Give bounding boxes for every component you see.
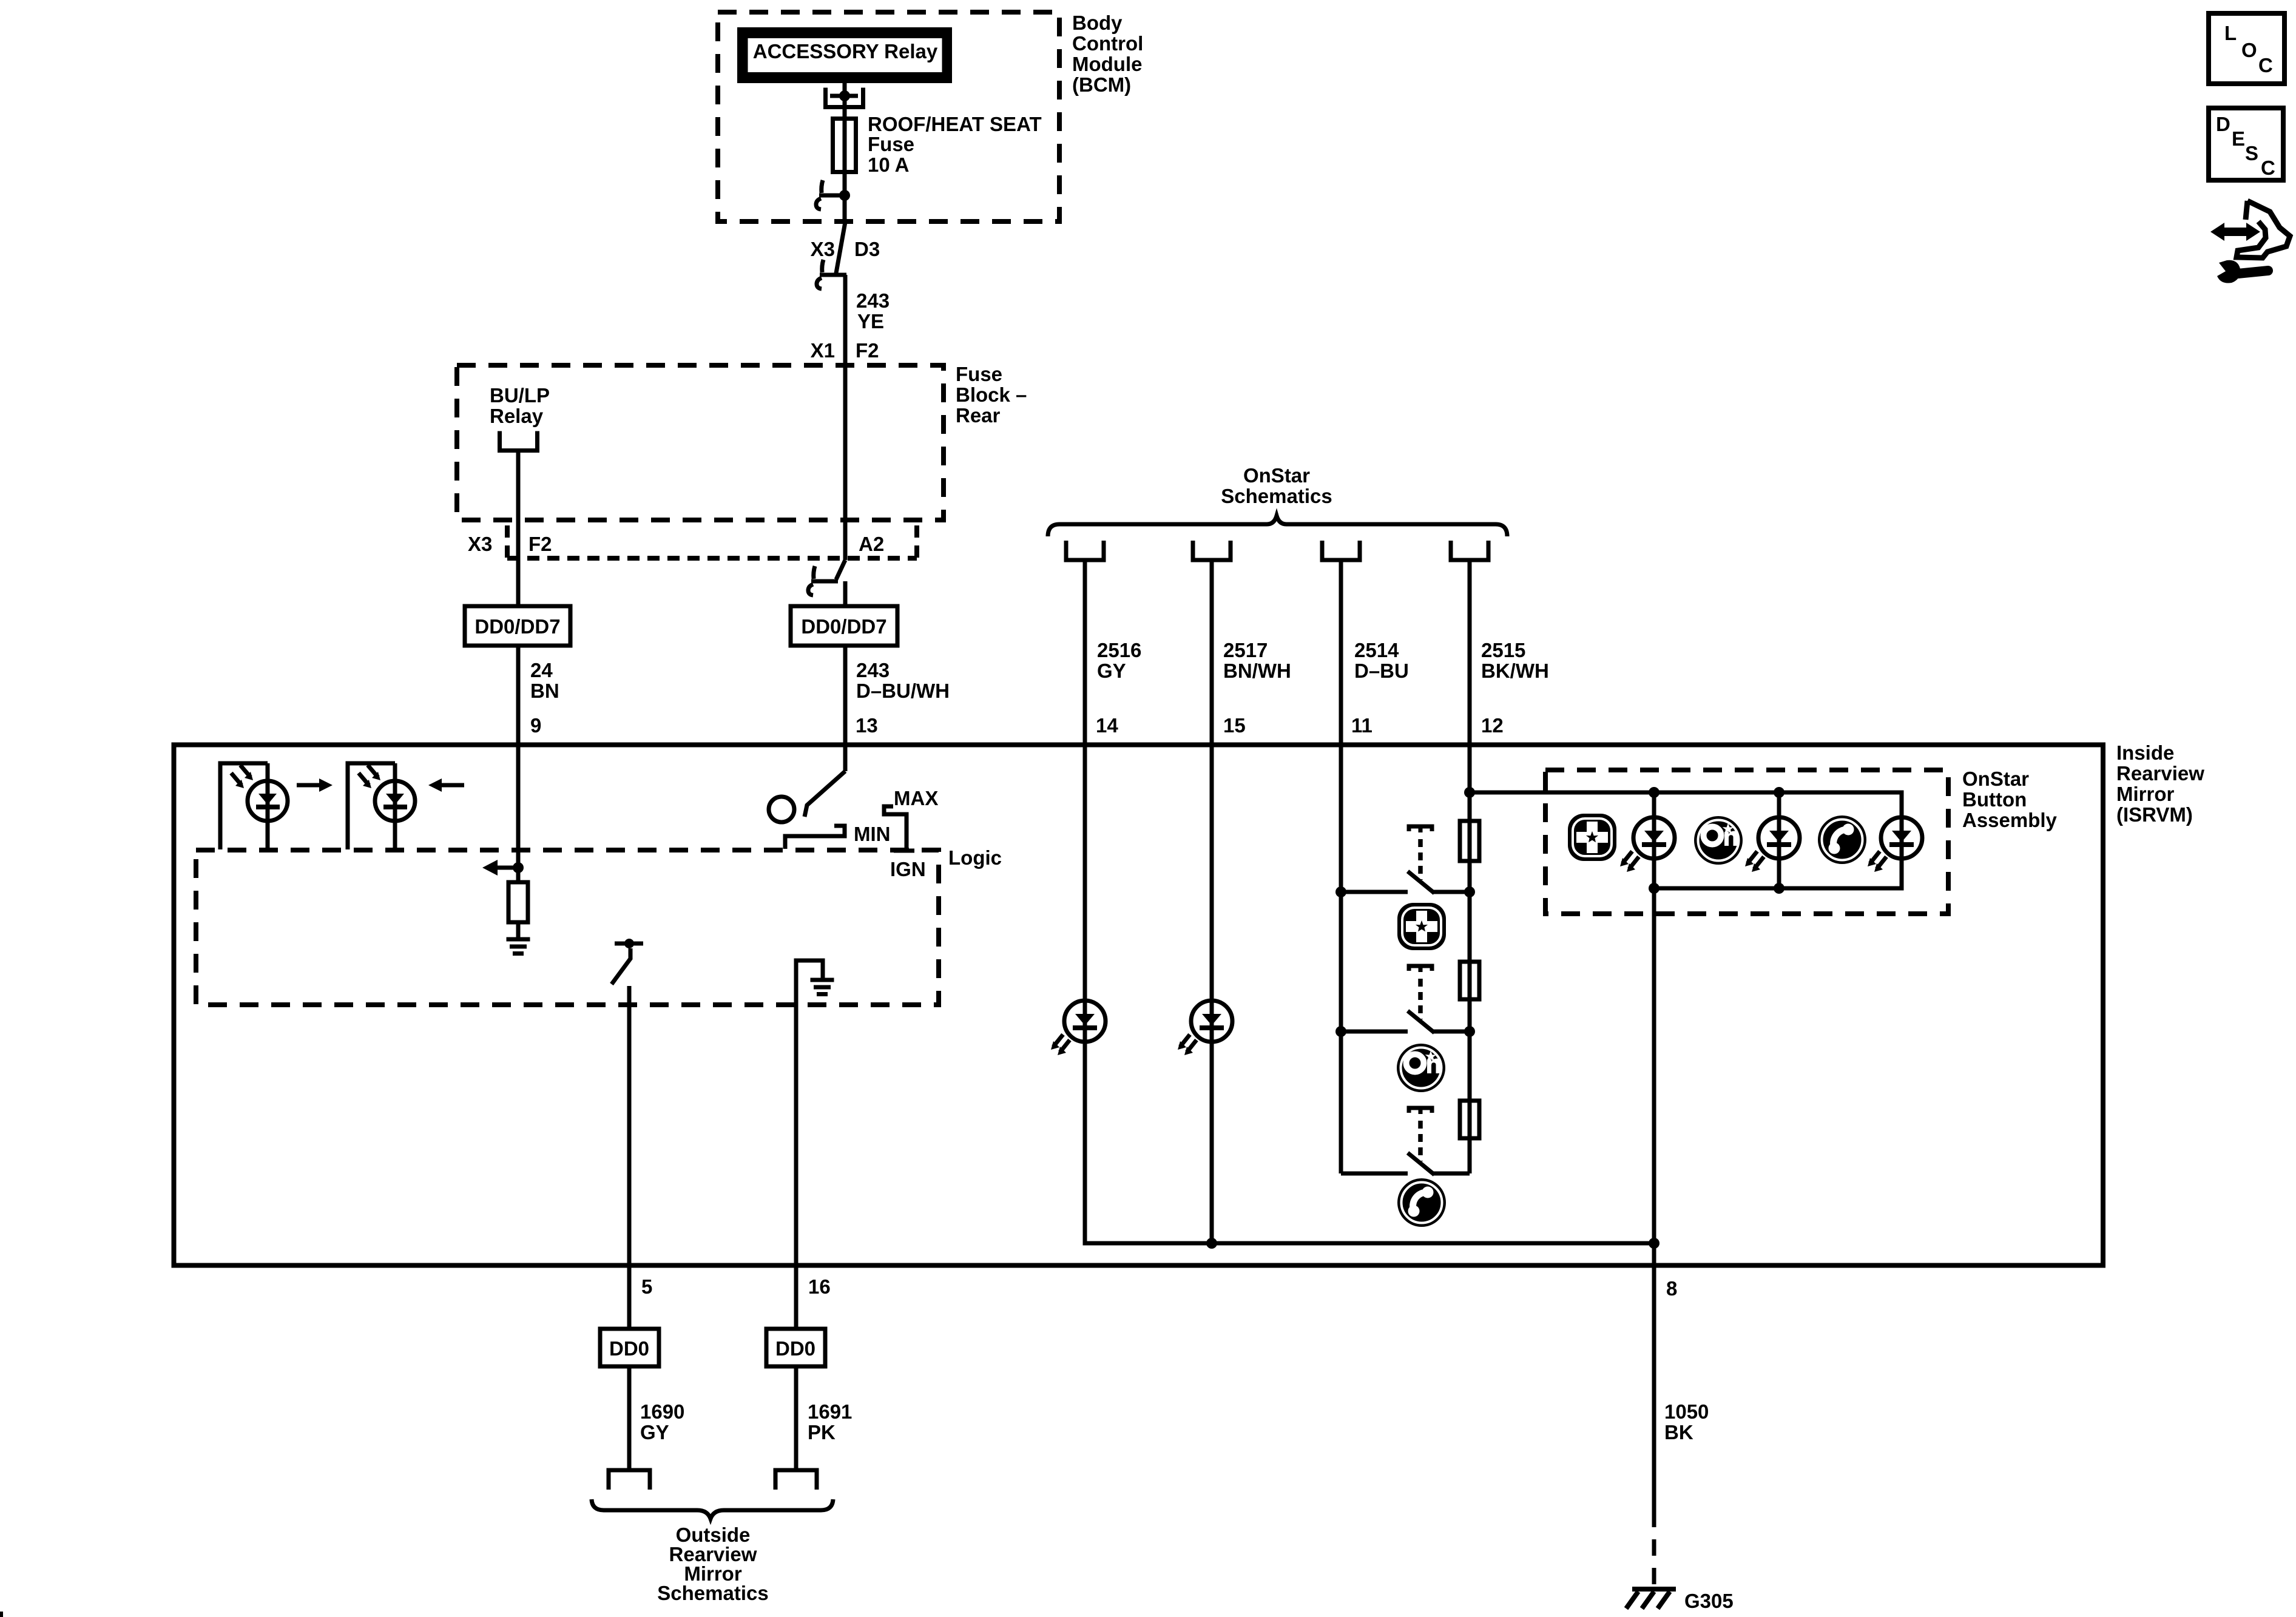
connector DD0/DD7 (left) <box>465 606 570 646</box>
wire 9 into logic <box>516 744 521 882</box>
wire 243 YE <box>843 275 848 560</box>
legend icon: harness outline <box>2237 201 2290 258</box>
photodiode PD1 <box>248 781 288 821</box>
terminal tick <box>830 94 858 98</box>
wire 13 into dimmer <box>843 744 848 771</box>
assembly button: OnStar logo <box>1694 816 1743 865</box>
connector DD0 (right) <box>766 1329 825 1366</box>
wire from BU/LP relay down <box>516 450 521 606</box>
svg-text:16: 16 <box>808 1275 831 1298</box>
speck (scan artifact bottom-left) <box>0 1612 3 1617</box>
svg-text:1050: 1050 <box>1664 1400 1709 1423</box>
assembly LED 2 <box>1745 817 1800 872</box>
OnStar Button Assembly dashed box <box>1545 770 1948 914</box>
brace over OnStar wires <box>1048 516 1507 536</box>
brace under outside mirror wires <box>592 1499 833 1519</box>
svg-text:24: 24 <box>530 659 553 681</box>
resistor on wire 9 <box>508 882 528 922</box>
dimmer wiper lever <box>805 771 845 817</box>
ISRVM label <box>2116 741 2204 826</box>
PD1 light arrows <box>240 765 253 780</box>
wire label 2514 D-BU <box>1354 639 1409 682</box>
linkage bracket 2 <box>1409 966 1432 972</box>
svg-text:Schematics: Schematics <box>1221 485 1332 507</box>
wire 11 vertical <box>1339 744 1343 1173</box>
junction dots row 2 <box>1335 1026 1475 1037</box>
svg-text:Assembly: Assembly <box>1962 809 2058 831</box>
svg-text:OnStar: OnStar <box>1962 768 2029 790</box>
svg-text:Mirror: Mirror <box>2116 783 2175 805</box>
svg-text:243: 243 <box>856 289 890 312</box>
linkage bracket 1 <box>1409 826 1432 832</box>
terminal (outside mirror, right) <box>775 1470 817 1490</box>
wire label 243 YE <box>856 289 890 333</box>
svg-text:Body: Body <box>1072 12 1123 34</box>
svg-text:Module: Module <box>1072 53 1142 75</box>
ground (logic, wire 9) <box>507 939 530 954</box>
Logic dashed box <box>196 850 939 1005</box>
MAX contact <box>884 806 914 851</box>
MIN contact <box>785 826 845 849</box>
svg-text:D: D <box>2216 113 2230 135</box>
wire 24 BN <box>516 646 521 744</box>
junction dot wire 9 <box>513 862 524 873</box>
assembly button: phone <box>1818 815 1866 864</box>
svg-text:Logic: Logic <box>948 846 1002 869</box>
wire 2516 GY <box>1083 560 1087 744</box>
LED2 drop wire <box>1777 792 1781 888</box>
connector hook inside BCM <box>816 180 846 209</box>
svg-text:C: C <box>2261 157 2275 179</box>
button: OnStar logo <box>1397 1044 1445 1092</box>
wire label 2515 BK/WH <box>1481 639 1549 682</box>
relay: ACCESSORY Relay box <box>741 32 948 79</box>
wire to ground <box>516 922 521 938</box>
svg-text:2516: 2516 <box>1097 639 1141 661</box>
left arrow at wire 9 <box>482 860 518 876</box>
svg-text:Rear: Rear <box>956 404 1001 427</box>
svg-text:IGN: IGN <box>890 858 926 880</box>
LED network wiring <box>1470 792 1902 1243</box>
legend icon: wrench <box>2217 260 2268 283</box>
svg-text:A2: A2 <box>859 533 884 555</box>
in-line connector hook <box>808 566 838 595</box>
wire label 1690 GY <box>640 1400 684 1443</box>
in-line connector slant below A2 <box>836 560 845 579</box>
svg-text:X1: X1 <box>811 339 835 362</box>
in-line connector hook <box>817 260 846 289</box>
wire 1050 BK dashed <box>1652 1511 1656 1585</box>
LED1 drop wire <box>1652 792 1656 888</box>
svg-text:PK: PK <box>808 1421 836 1443</box>
svg-text:1690: 1690 <box>640 1400 684 1423</box>
legend icon: double arrow <box>2210 223 2260 241</box>
connector DD0 (left) <box>600 1329 659 1366</box>
svg-text:Control: Control <box>1072 32 1143 55</box>
svg-text:D–BU: D–BU <box>1354 660 1409 682</box>
DESC legend box <box>2209 108 2283 180</box>
assembly button: cross <box>1568 814 1616 861</box>
Body Control Module (BCM) dashed box <box>718 12 1059 221</box>
svg-text:BK/WH: BK/WH <box>1481 660 1549 682</box>
in-line connector slant below X3/D3 <box>836 222 845 273</box>
svg-text:Button: Button <box>1962 788 2027 811</box>
svg-text:GY: GY <box>1097 660 1126 682</box>
svg-text:S: S <box>2245 142 2258 164</box>
wire label 243 D-BU/WH <box>856 659 950 702</box>
photodiode PD2 enclosure <box>348 763 395 849</box>
fold switch dot <box>624 939 634 948</box>
ground G305 <box>1626 1589 1676 1609</box>
svg-text:11: 11 <box>1351 714 1373 737</box>
svg-text:Fuse: Fuse <box>956 363 1002 385</box>
relay output terminal U <box>826 88 863 107</box>
wire label 2516 GY <box>1097 639 1141 682</box>
svg-text:Inside: Inside <box>2116 741 2174 764</box>
svg-text:BN/WH: BN/WH <box>1223 660 1291 682</box>
Fuse Block label <box>956 363 1027 427</box>
wire label 1050 BK <box>1664 1400 1709 1443</box>
svg-text:10 A: 10 A <box>868 154 909 176</box>
wire 5 to DD0 <box>627 1265 632 1329</box>
svg-text:ROOF/HEAT SEAT: ROOF/HEAT SEAT <box>868 113 1042 135</box>
OnStar Schematics label <box>1221 464 1332 507</box>
resistor R3 on wire 12 <box>1460 1101 1479 1138</box>
pin labels X1 / F2 <box>811 339 879 362</box>
dimmer wiper terminal circle <box>769 797 794 822</box>
terminal wire 14 <box>1066 541 1104 560</box>
PD2 light arrows <box>368 765 380 780</box>
svg-text:243: 243 <box>856 659 890 681</box>
assembly LED 1 <box>1620 817 1675 872</box>
terminal wire 15 <box>1193 541 1231 560</box>
svg-text:(ISRVM): (ISRVM) <box>2116 803 2193 826</box>
svg-text:ACCESSORY Relay: ACCESSORY Relay <box>753 40 938 62</box>
button: phone <box>1397 1178 1446 1227</box>
photodiode PD1 wire <box>266 763 270 849</box>
junction dots LED network <box>1649 787 1784 894</box>
svg-text:2515: 2515 <box>1481 639 1525 661</box>
wire 2514 D-BU <box>1339 560 1343 744</box>
linkage dashes 2 <box>1418 979 1423 1019</box>
svg-text:Relay: Relay <box>490 405 544 427</box>
svg-text:Fuse: Fuse <box>868 133 914 155</box>
linkage dashes 3 <box>1418 1121 1423 1161</box>
connector DD0/DD7 (right) <box>791 606 897 646</box>
svg-text:13: 13 <box>856 714 878 737</box>
svg-text:BU/LP: BU/LP <box>490 384 550 407</box>
Outside Rearview Mirror Schematics label <box>657 1524 768 1604</box>
switch row 2 <box>1341 1011 1470 1033</box>
LED on wire 15 <box>1178 1001 1232 1055</box>
arrow left <box>428 778 464 792</box>
wire from relay to fuse <box>843 83 847 222</box>
svg-text:D–BU/WH: D–BU/WH <box>856 680 950 702</box>
photodiode PD2 wire <box>393 763 397 849</box>
svg-text:2517: 2517 <box>1223 639 1268 661</box>
assembly LED 3 <box>1868 817 1922 872</box>
wire label 2517 BN/WH <box>1223 639 1291 682</box>
terminal wire 11 <box>1322 541 1360 560</box>
svg-text:(BCM): (BCM) <box>1072 73 1131 96</box>
ground (logic, wire 16) <box>811 980 834 994</box>
junction dot wire 15 bottom <box>1206 1238 1217 1249</box>
terminal (outside mirror, left) <box>609 1470 650 1490</box>
svg-text:MAX: MAX <box>894 787 938 809</box>
photodiode PD1 enclosure <box>220 763 268 849</box>
svg-text:9: 9 <box>530 714 541 737</box>
LED on wire 14 <box>1051 1001 1106 1055</box>
svg-text:L: L <box>2224 22 2237 44</box>
connector pin labels X3 F2 A2 <box>468 533 884 555</box>
junction dot <box>839 190 850 201</box>
photodiode PD2 <box>375 781 415 821</box>
wire 5 inside mirror <box>627 986 632 1265</box>
svg-text:G305: G305 <box>1684 1590 1734 1612</box>
svg-text:O: O <box>2241 39 2257 61</box>
wire 1050 BK solid <box>1652 1243 1656 1511</box>
pin labels X3 / D3 <box>811 238 880 260</box>
svg-text:E: E <box>2232 127 2245 150</box>
wire 1690 GY <box>627 1366 632 1470</box>
wire 243 D-BU/WH <box>843 646 848 744</box>
junction dot <box>839 90 850 101</box>
OnStar Button Assembly label <box>1962 768 2058 831</box>
svg-text:F2: F2 <box>856 339 879 362</box>
svg-text:5: 5 <box>641 1275 652 1298</box>
button: emergency cross <box>1397 903 1446 950</box>
svg-text:YE: YE <box>857 310 884 333</box>
svg-text:F2: F2 <box>528 533 552 555</box>
fuse: ROOF/HEAT SEAT Fuse 10 A <box>833 113 1042 176</box>
svg-text:BK: BK <box>1664 1421 1693 1443</box>
linkage bracket 3 <box>1409 1108 1432 1114</box>
switch row 1 <box>1341 871 1470 893</box>
svg-text:12: 12 <box>1481 714 1504 737</box>
switch row 3 <box>1341 1153 1470 1175</box>
wire 16 to DD0 <box>794 1265 799 1329</box>
svg-text:X3: X3 <box>811 238 835 260</box>
junction dots row 1 <box>1335 886 1475 897</box>
svg-text:14: 14 <box>1096 714 1118 737</box>
wire 12 vertical <box>1468 744 1472 1173</box>
svg-text:8: 8 <box>1666 1277 1677 1300</box>
BCM label <box>1072 12 1143 96</box>
junction dot pin 8 line <box>1649 1238 1660 1249</box>
BU/LP relay output terminal <box>500 431 538 451</box>
svg-text:15: 15 <box>1223 714 1246 737</box>
Fuse Block - Rear dashed box <box>457 365 944 520</box>
svg-text:GY: GY <box>640 1421 669 1443</box>
wire 1691 PK <box>794 1366 799 1470</box>
svg-text:DD0/DD7: DD0/DD7 <box>474 615 560 638</box>
wire to DD0/DD7 <box>843 581 848 606</box>
wire 15 <box>1210 744 1214 1243</box>
svg-text:DD0: DD0 <box>609 1337 649 1360</box>
resistor R2 on wire 12 <box>1460 962 1479 999</box>
fold switch bar <box>615 942 643 946</box>
svg-text:D3: D3 <box>854 238 880 260</box>
wire 14 with LED and bottom run <box>1085 744 1654 1243</box>
svg-text:Rearview: Rearview <box>2116 762 2204 785</box>
LOC legend box <box>2209 13 2284 84</box>
junction dot wire 12 top <box>1464 787 1475 798</box>
fuse block connector face (dashed) <box>507 525 917 558</box>
arrow right <box>297 778 333 792</box>
svg-text:DD0/DD7: DD0/DD7 <box>801 615 886 638</box>
linkage dashes 1 <box>1418 839 1423 880</box>
svg-text:1691: 1691 <box>808 1400 852 1423</box>
wire 16 up to ground <box>796 960 823 1265</box>
svg-text:C: C <box>2258 54 2273 76</box>
svg-text:Schematics: Schematics <box>657 1582 768 1604</box>
wire label 1691 PK <box>808 1400 852 1443</box>
fold switch lever <box>612 948 630 984</box>
svg-text:MIN: MIN <box>854 823 891 845</box>
svg-text:DD0: DD0 <box>775 1337 815 1360</box>
BU/LP Relay label <box>490 384 550 427</box>
resistor R1 on wire 12 <box>1460 821 1479 861</box>
wire label 24 BN <box>530 659 559 702</box>
terminal wire 12 <box>1451 541 1488 560</box>
svg-text:X3: X3 <box>468 533 492 555</box>
svg-text:OnStar: OnStar <box>1243 464 1310 487</box>
Inside Rearview Mirror (ISRVM) box <box>174 745 2104 1266</box>
svg-text:Block –: Block – <box>956 383 1027 406</box>
svg-text:2514: 2514 <box>1354 639 1399 661</box>
svg-text:BN: BN <box>530 680 559 702</box>
wire 2517 BN/WH <box>1210 560 1214 744</box>
wire 2515 BK/WH <box>1468 560 1472 744</box>
